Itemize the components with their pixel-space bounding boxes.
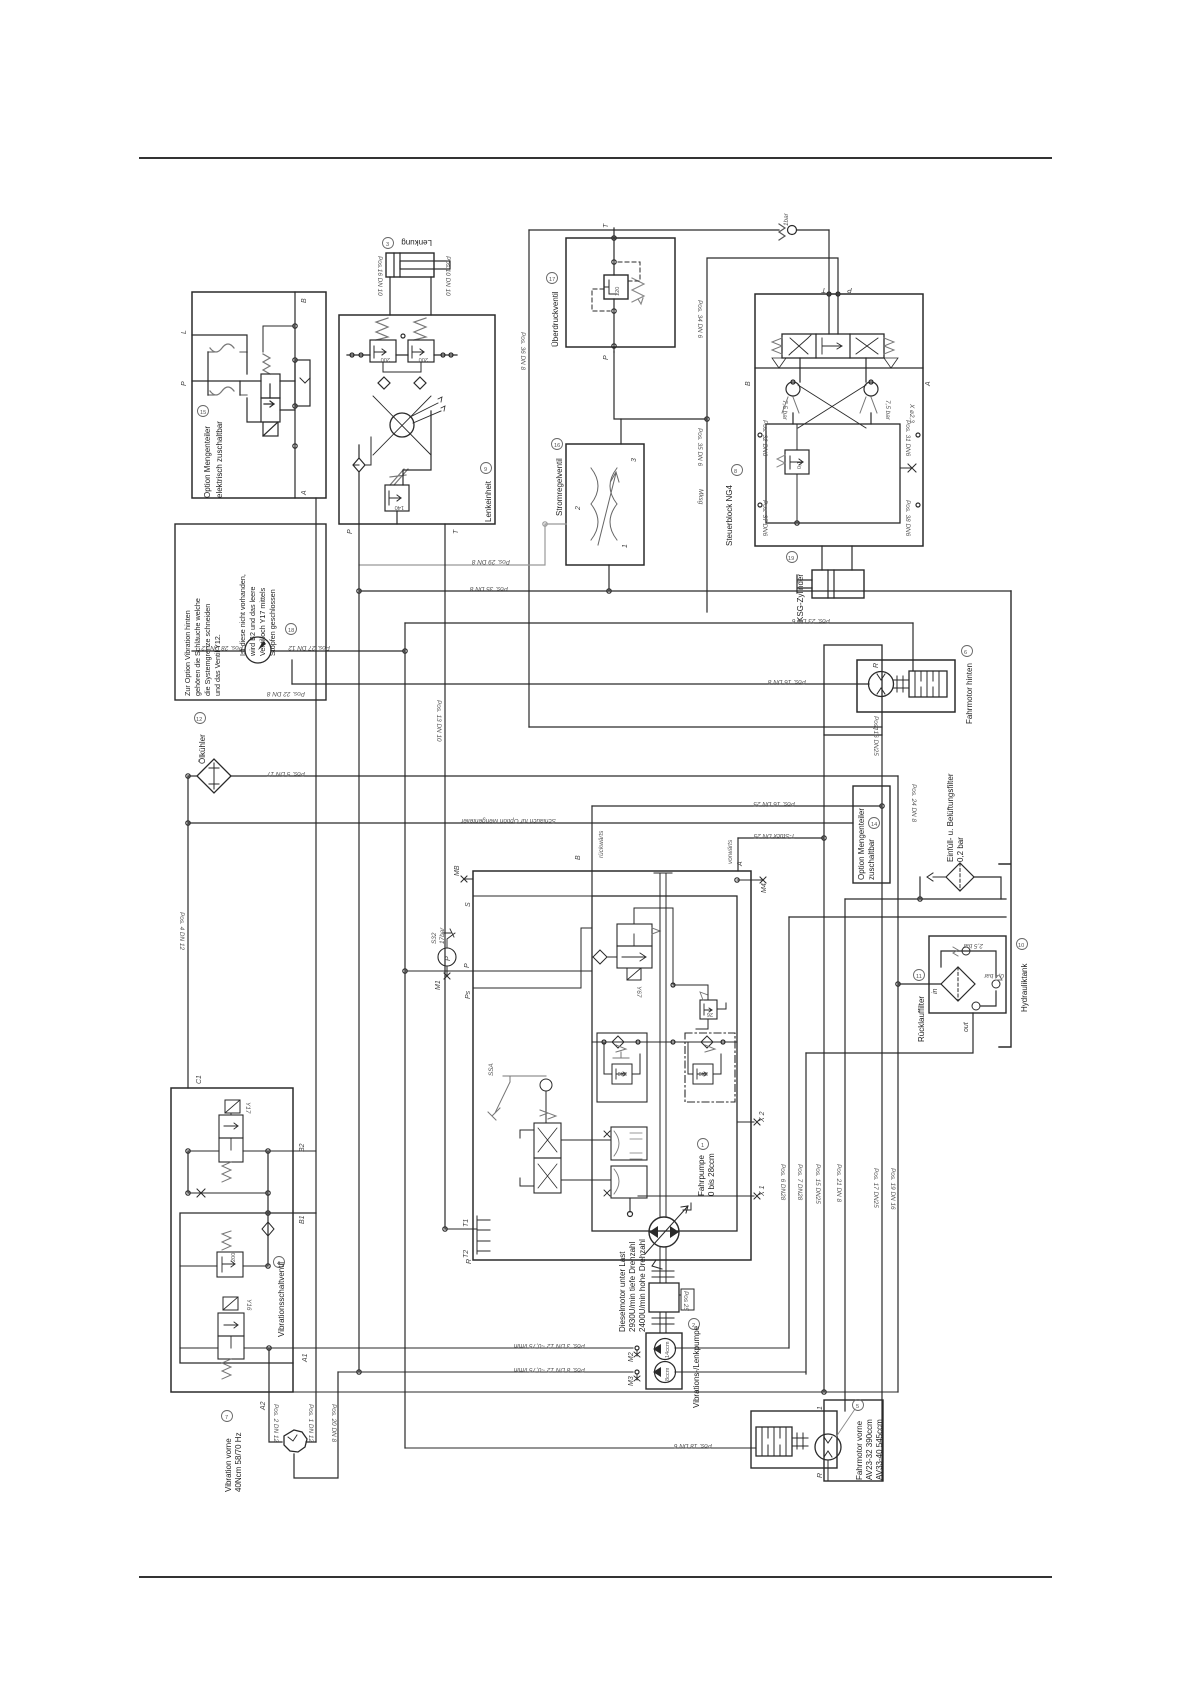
svg-text:T: T	[603, 223, 610, 228]
inner box Fahrpumpe	[592, 896, 737, 1231]
spring relief vib	[222, 1231, 231, 1250]
riser x316	[315, 498, 317, 1442]
riser x806	[805, 1053, 807, 1374]
flow control box Stromregelventil 16	[566, 444, 644, 565]
spring Y16	[222, 1359, 231, 1379]
label circle 17	[547, 273, 558, 284]
svg-text:Zur Option Vibration hinten: Zur Option Vibration hinten	[183, 610, 192, 696]
wire cylinder ports to Lenkeinheit	[390, 277, 431, 315]
svg-text:Pos. 34 DN 6: Pos. 34 DN 6	[696, 300, 703, 338]
check valve charge	[593, 950, 607, 964]
svg-text:A: A	[737, 861, 744, 867]
svg-text:Einfüll- u. Belüftungsfilter: Einfüll- u. Belüftungsfilter	[946, 773, 955, 862]
svg-text:Pos. 15 DN25: Pos. 15 DN25	[814, 1164, 821, 1204]
throttle upper box15	[208, 344, 247, 352]
pilot dashed lines 17	[592, 262, 640, 311]
pressure reducer 0,1	[785, 450, 809, 474]
flow divider box Option Mengenteiler zuschaltbar 14	[853, 786, 890, 883]
relief 26	[700, 1000, 717, 1019]
svg-text:Fahrmotor hinten: Fahrmotor hinten	[965, 663, 974, 724]
swash actuator	[611, 1127, 647, 1160]
svg-text:18: 18	[288, 628, 294, 634]
svg-text:Pos. 5 DN 17: Pos. 5 DN 17	[267, 770, 305, 777]
label circle 2	[689, 1319, 700, 1330]
svg-text:M4: M4	[761, 883, 768, 893]
wires pump2 right risers	[675, 1348, 806, 1372]
wire P of 17 to junction	[614, 352, 707, 419]
svg-text:Pos. 16 DN25: Pos. 16 DN25	[872, 716, 879, 756]
svg-text:L: L	[181, 330, 188, 334]
svg-text:Ölkühler: Ölkühler	[198, 734, 207, 764]
front motor box Fahrmotor vorne 5	[751, 1411, 837, 1468]
pilot hatch left	[772, 358, 898, 368]
riser x789	[788, 917, 790, 1348]
venturi symbol	[591, 468, 617, 540]
svg-text:T-Stück DN 25: T-Stück DN 25	[753, 832, 795, 839]
svg-text:340: 340	[699, 1070, 708, 1076]
ports T1 T2 R	[477, 1216, 490, 1254]
relief valve 120	[604, 275, 628, 299]
svg-text:C1: C1	[196, 1075, 203, 1084]
svg-text:Pos.10 DN 10: Pos.10 DN 10	[444, 256, 451, 296]
svg-text:Ps: Ps	[465, 990, 472, 999]
valve Y16 body	[218, 1313, 244, 1336]
port X1	[638, 1193, 760, 1199]
svg-text:2: 2	[575, 506, 582, 511]
bridge check right 7,5bar	[864, 382, 878, 396]
wire port2 to Lenkeinheit P	[359, 524, 566, 565]
svg-text:Ventilloch Y17 mittels: Ventilloch Y17 mittels	[258, 587, 267, 656]
label circle 10	[1017, 939, 1028, 950]
manifold line in box 15	[294, 292, 296, 498]
servo valve	[534, 1123, 561, 1158]
svg-text:2,5 bar: 2,5 bar	[962, 942, 984, 949]
svg-text:1: 1	[622, 544, 629, 548]
svg-text:Pos. 31 DN6: Pos. 31 DN6	[904, 420, 911, 457]
svg-text:Pos. 20 DN 8: Pos. 20 DN 8	[330, 1404, 337, 1442]
wire pump18 drain	[291, 660, 293, 684]
svg-text:1: 1	[701, 1143, 704, 1149]
svg-text:Option Mengenteiler: Option Mengenteiler	[203, 426, 212, 498]
gallery S	[473, 895, 640, 897]
inner box B1	[180, 1213, 316, 1363]
svg-text:Pos. 13 DN 10: Pos. 13 DN 10	[435, 700, 442, 742]
svg-text:T: T	[821, 286, 826, 293]
check valve 1bar	[779, 224, 785, 240]
bridge cross lines	[798, 385, 866, 428]
check valve diamond feed	[353, 458, 365, 472]
svg-text:Y67: Y67	[635, 986, 642, 998]
port X2	[737, 1119, 760, 1125]
svg-text:B: B	[745, 381, 752, 386]
svg-text:5: 5	[856, 1404, 859, 1410]
spring 120	[632, 278, 644, 304]
svg-text:AV33-40 545ccm: AV33-40 545ccm	[875, 1419, 884, 1480]
svg-text:KSG-Zylinder: KSG-Zylinder	[796, 574, 805, 622]
wire T return y727	[529, 726, 882, 728]
shaft front	[792, 1433, 808, 1449]
svg-text:Rücklauffilter: Rücklauffilter	[917, 996, 926, 1042]
svg-text:Pos. 23 DN 6: Pos. 23 DN 6	[792, 617, 830, 624]
wires Y17	[188, 1150, 316, 1152]
relief valve 140	[385, 485, 409, 511]
label circle 18	[286, 624, 297, 635]
wire pump18 left	[192, 650, 245, 652]
check lower	[972, 1002, 980, 1010]
svg-text:14: 14	[871, 822, 877, 828]
svg-text:0,4 bar: 0,4 bar	[983, 972, 1004, 979]
svg-text:SSA: SSA	[488, 1063, 495, 1076]
motor circle front	[815, 1434, 841, 1460]
orifice line	[188, 1189, 268, 1197]
svg-text:Fahrmotor vorne: Fahrmotor vorne	[855, 1420, 864, 1480]
svg-text:M1: M1	[435, 980, 442, 990]
svg-text:und das Ventil Y12.: und das Ventil Y12.	[213, 634, 222, 696]
svg-text:S: S	[465, 902, 472, 907]
vib pump front loop	[269, 1348, 316, 1442]
wire tank top y917	[789, 916, 1006, 918]
svg-text:Pos. 32 DN6: Pos. 32 DN6	[761, 420, 768, 457]
spring relief 140	[390, 469, 408, 485]
wire breather to tank	[974, 877, 1001, 899]
svg-text:AV23-32 390ccm: AV23-32 390ccm	[865, 1419, 874, 1480]
svg-text:T: T	[453, 529, 460, 534]
svg-text:26: 26	[707, 1011, 713, 1017]
svg-text:Pos. 24 DN 8: Pos. 24 DN 8	[910, 784, 917, 822]
svg-text:P: P	[181, 381, 188, 386]
spring relief right	[414, 318, 426, 340]
svg-text:Pos. 36 DN 8: Pos. 36 DN 8	[519, 332, 526, 370]
check valve diamond left inner	[378, 377, 390, 389]
spring left 4/3	[772, 338, 782, 354]
wire cooler left	[188, 775, 197, 777]
svg-text:wird B2 und das leere: wird B2 und das leere	[248, 586, 257, 657]
wire HD loop B side y806	[592, 805, 882, 807]
svg-text:Pos. 16 DN 25: Pos. 16 DN 25	[753, 800, 795, 807]
label circle 4	[274, 1257, 285, 1268]
drive shaft	[654, 873, 672, 1217]
svg-text:6: 6	[964, 650, 967, 656]
control block box Steuerblock NG4 8	[755, 294, 923, 546]
svg-text:3: 3	[386, 242, 389, 248]
wire Stromregel port3	[620, 419, 622, 444]
note box	[175, 524, 326, 700]
svg-text:Lenkung: Lenkung	[401, 238, 432, 247]
svg-text:40Ncm 58/70 Hz: 40Ncm 58/70 Hz	[234, 1432, 243, 1492]
tandem pump box Vibrations-Lenkpumpe 2	[646, 1333, 682, 1389]
svg-text:14ccm: 14ccm	[665, 1341, 671, 1358]
svg-text:M2: M2	[628, 1352, 635, 1362]
svg-text:Vibrations-/Lenkpumpe: Vibrations-/Lenkpumpe	[692, 1325, 701, 1408]
riser x445	[444, 524, 446, 1229]
svg-text:Stromregelventil: Stromregelventil	[555, 458, 564, 516]
wires valve to manifold box15	[247, 352, 295, 422]
svg-text:S32: S32	[431, 932, 438, 944]
wires bridge down	[793, 413, 871, 424]
svg-text:Pos. 38 DN6: Pos. 38 DN6	[904, 500, 911, 537]
svg-text:Schlauch für Option Mengenteil: Schlauch für Option Mengenteiler	[460, 817, 556, 824]
ports M2 M3	[635, 1346, 639, 1350]
wire Schlauch Mengenteiler	[188, 822, 853, 824]
svg-text:0 bis 28ccm: 0 bis 28ccm	[707, 1153, 716, 1196]
svg-text:R: R	[817, 1473, 824, 1478]
svg-text:Steuerblock NG4: Steuerblock NG4	[725, 485, 734, 546]
riser x899 cooler return	[897, 776, 899, 1392]
wire Ps pilot	[473, 928, 592, 988]
oil cooler Oelkuehler 12	[197, 759, 231, 793]
check valve diamond right inner	[414, 377, 426, 389]
wire feed to brake	[912, 623, 914, 671]
svg-text:A2: A2	[260, 1401, 267, 1411]
label circle 15	[198, 406, 209, 417]
svg-text:A1: A1	[302, 1353, 309, 1363]
svg-text:R: R	[466, 1259, 473, 1264]
svg-text:0,1: 0,1	[797, 461, 803, 469]
svg-text:Pos. 28 DN 12: Pos. 28 DN 12	[201, 644, 243, 651]
svg-text:Pos. 3 DN 12 ~0,75 l/min: Pos. 3 DN 12 ~0,75 l/min	[513, 1342, 585, 1349]
node L port box15	[192, 335, 247, 352]
wire pump18 right to riser	[271, 650, 405, 652]
wire Mksg stub	[706, 419, 708, 612]
svg-text:T1: T1	[463, 1219, 470, 1227]
svg-text:A: A	[301, 490, 308, 496]
svg-text:200: 200	[231, 1253, 237, 1262]
svg-text:rückwärts: rückwärts	[598, 830, 605, 858]
wire return line y591	[359, 590, 1011, 592]
solenoid box15	[263, 422, 278, 436]
lever SSA	[488, 1082, 510, 1120]
svg-text:8ccm: 8ccm	[665, 1367, 671, 1381]
svg-text:11: 11	[916, 974, 922, 980]
solenoid Y17	[225, 1100, 240, 1113]
wire Pos36 vertical	[528, 230, 530, 727]
spring valve box15	[263, 354, 270, 374]
wire Pos18 to brake	[405, 1447, 756, 1449]
relief block box Ueberdruckventil 17	[566, 238, 675, 347]
svg-text:Pos. 22 DN 8: Pos. 22 DN 8	[267, 690, 305, 697]
wire motor feed y623	[405, 622, 913, 624]
wires block to cylinder	[822, 546, 852, 570]
wire Pos24 drop	[919, 877, 921, 899]
bridge check left 7,5bar	[786, 382, 800, 396]
svg-text:Stopfen geschlossen: Stopfen geschlossen	[268, 589, 277, 656]
HP relief 340 right dash	[685, 1033, 735, 1102]
pressure switch S32	[438, 948, 456, 966]
svg-text:0,2 bar: 0,2 bar	[956, 837, 965, 862]
svg-text:Pos. 27 DN 12: Pos. 27 DN 12	[288, 644, 330, 651]
label circle 5	[853, 1400, 864, 1411]
svg-text:7,5 bar: 7,5 bar	[781, 400, 788, 421]
svg-text:Pos. 29 DN 8: Pos. 29 DN 8	[472, 558, 510, 565]
svg-text:Ist diese nicht vorhanden,: Ist diese nicht vorhanden,	[238, 574, 247, 656]
wire motor feed y684	[292, 683, 869, 685]
svg-text:Pos.16 DN 10: Pos.16 DN 10	[376, 256, 383, 296]
label circle 9	[481, 463, 492, 474]
pump rotary group	[649, 1217, 679, 1247]
svg-text:Vibrationsschaltventil: Vibrationsschaltventil	[277, 1262, 286, 1337]
svg-text:MB: MB	[454, 865, 461, 876]
svg-text:2930U/min tiefe Drehzahl: 2930U/min tiefe Drehzahl	[628, 1242, 637, 1332]
valve Y17 body	[219, 1115, 243, 1138]
svg-text:B: B	[575, 855, 582, 860]
svg-text:Hydrauliktank: Hydrauliktank	[1020, 963, 1029, 1012]
riser x824	[823, 735, 825, 1392]
svg-text:8: 8	[734, 469, 737, 475]
svg-text:X 2: X 2	[759, 1111, 766, 1123]
svg-text:200: 200	[419, 356, 428, 362]
main line through valve 17	[613, 228, 615, 352]
svg-text:vorwärts: vorwärts	[727, 839, 734, 864]
label circle 1	[698, 1139, 709, 1150]
cylinder Lenkung 3	[386, 253, 434, 277]
cylinder KSG	[812, 570, 864, 598]
svg-text:3: 3	[631, 458, 638, 462]
inner box Steuerblock	[766, 424, 900, 523]
svg-text:zuschaltbar: zuschaltbar	[867, 839, 876, 880]
wire P port pump	[405, 970, 592, 972]
wire feed to motor	[292, 683, 869, 685]
svg-text:in: in	[932, 988, 939, 994]
port circles box15	[293, 324, 297, 328]
label circle 11	[914, 970, 925, 981]
arrow venturi	[598, 472, 619, 545]
svg-text:T2: T2	[463, 1250, 470, 1258]
wire P branch box15	[208, 381, 240, 395]
motor circle rear	[869, 672, 894, 697]
svg-text:Pos. 37 DN6: Pos. 37 DN6	[761, 500, 768, 537]
frame top rule	[140, 157, 1051, 159]
svg-text:R: R	[873, 663, 880, 668]
port M4	[737, 877, 766, 883]
svg-text:elektrisch zuschaltbar: elektrisch zuschaltbar	[215, 421, 224, 498]
svg-text:Pos. 17 DN25: Pos. 17 DN25	[872, 1168, 879, 1208]
svg-text:Überdruckventil: Überdruckventil	[551, 291, 560, 347]
svg-text:7,5 bar: 7,5 bar	[884, 400, 891, 421]
svg-text:Pos. 21 DN 8: Pos. 21 DN 8	[835, 1164, 842, 1202]
spring relief left	[376, 318, 388, 340]
svg-text:Pos. 19 DN 16: Pos. 19 DN 16	[889, 1168, 896, 1210]
svg-text:Fahrpumpe: Fahrpumpe	[697, 1155, 706, 1196]
gearbox Pos 25	[649, 1283, 679, 1312]
pointer to label 5	[836, 1409, 855, 1437]
pump circle 14ccm	[655, 1339, 676, 1360]
4/3 valve body	[782, 334, 884, 358]
label circle 14	[869, 818, 880, 829]
svg-text:B1: B1	[299, 1215, 306, 1224]
spring right 4/3	[884, 338, 894, 354]
svg-text:Pos. 35 DN 6: Pos. 35 DN 6	[696, 428, 703, 466]
rotor steering	[390, 413, 414, 437]
divider Steuerblock	[755, 367, 923, 369]
svg-text:Y17: Y17	[244, 1102, 251, 1114]
wire filter inlet	[898, 983, 941, 985]
svg-text:Pos. 2 DN 12: Pos. 2 DN 12	[272, 1404, 279, 1442]
svg-text:Pos. 1 DN 12: Pos. 1 DN 12	[307, 1404, 314, 1442]
vibration pump front 7	[284, 1430, 307, 1452]
svg-text:7: 7	[225, 1415, 228, 1421]
svg-text:17bar: 17bar	[439, 927, 446, 944]
svg-text:140: 140	[395, 504, 404, 510]
svg-text:X 1: X 1	[759, 1185, 766, 1197]
svg-text:Pos. 18 DN 6: Pos. 18 DN 6	[674, 1442, 712, 1449]
riser x359	[358, 524, 360, 1372]
svg-text:P: P	[847, 286, 852, 293]
svg-text:15: 15	[200, 410, 206, 416]
wires 4/3 to bridge	[800, 358, 866, 382]
brake front	[756, 1427, 792, 1456]
svg-text:Option Mengenteiler: Option Mengenteiler	[857, 808, 866, 880]
option pump vibration hinten	[245, 637, 271, 663]
wire T drop to Steuerblock	[828, 230, 830, 334]
riser x845	[844, 899, 846, 1411]
svg-text:Pos. 7 DN28: Pos. 7 DN28	[796, 1164, 803, 1201]
svg-text:Lenkeinheit: Lenkeinheit	[484, 480, 493, 522]
svg-text:M3: M3	[628, 1376, 635, 1386]
svg-text:B2: B2	[299, 1143, 306, 1152]
bottom collector line	[171, 1391, 898, 1393]
return box rear motor	[824, 645, 882, 735]
label circle 6	[962, 646, 973, 657]
wire riser to Steuerblock P	[707, 258, 838, 419]
steering unit box Lenkeinheit 9	[339, 315, 495, 524]
port X stub	[900, 464, 916, 472]
HP relief 340 left	[597, 1033, 647, 1102]
port MB	[461, 876, 473, 882]
svg-text:Dieselmotor unter Last: Dieselmotor unter Last	[618, 1251, 627, 1332]
svg-text:P: P	[464, 963, 471, 968]
drive motor rear box Fahrmotor hinten 6	[857, 660, 955, 712]
pump circle 8ccm	[655, 1362, 676, 1383]
svg-text:200: 200	[381, 356, 390, 362]
svg-text:19: 19	[788, 556, 794, 562]
label circle 8	[732, 465, 743, 476]
relief valve 200 right	[408, 340, 434, 362]
svg-text:Pos. 6 DN28: Pos. 6 DN28	[779, 1164, 786, 1201]
svg-text:P: P	[603, 355, 610, 360]
throttle lower box15	[208, 387, 247, 395]
valve block box Option Mengenteiler 15	[192, 292, 326, 498]
riser x882 motor return	[881, 735, 883, 1481]
svg-text:1: 1	[817, 1406, 824, 1410]
svg-text:Pos. 4 DN 12: Pos. 4 DN 12	[178, 912, 185, 950]
breather filter Einfuell	[946, 863, 974, 891]
motor R drop	[827, 1460, 829, 1481]
return filter box Ruecklauffilter 11	[929, 936, 1006, 1013]
valve Y67	[617, 924, 652, 946]
svg-text:Pos. 8 DN 12 ~0,75 l/min: Pos. 8 DN 12 ~0,75 l/min	[513, 1366, 585, 1373]
svg-text:P: P	[347, 529, 354, 534]
relief valve 200 left	[370, 340, 396, 362]
svg-text:Vibration vorne: Vibration vorne	[224, 1438, 233, 1492]
svg-text:10: 10	[1018, 943, 1024, 949]
check 0,4bar	[992, 980, 1000, 988]
filter diamond	[941, 967, 975, 1001]
wire L to valve	[192, 352, 261, 381]
wire cooler return long	[231, 775, 898, 777]
svg-text:gehören die Schläuche welche: gehören die Schläuche welche	[193, 598, 202, 696]
label circle 12	[195, 713, 206, 724]
svg-text:12: 12	[196, 717, 202, 723]
svg-text:out: out	[963, 1021, 970, 1032]
charge gallery y1042	[592, 1041, 737, 1043]
wire left boundary drop	[187, 776, 189, 1088]
svg-text:B: B	[301, 298, 308, 303]
svg-text:2400U/min hohe Drehzahl: 2400U/min hohe Drehzahl	[638, 1239, 647, 1332]
wire A1 line	[180, 1347, 633, 1349]
svg-text:Mksg: Mksg	[697, 489, 704, 505]
relief 200 vib	[217, 1252, 243, 1277]
wire tank top y899	[845, 898, 1006, 900]
